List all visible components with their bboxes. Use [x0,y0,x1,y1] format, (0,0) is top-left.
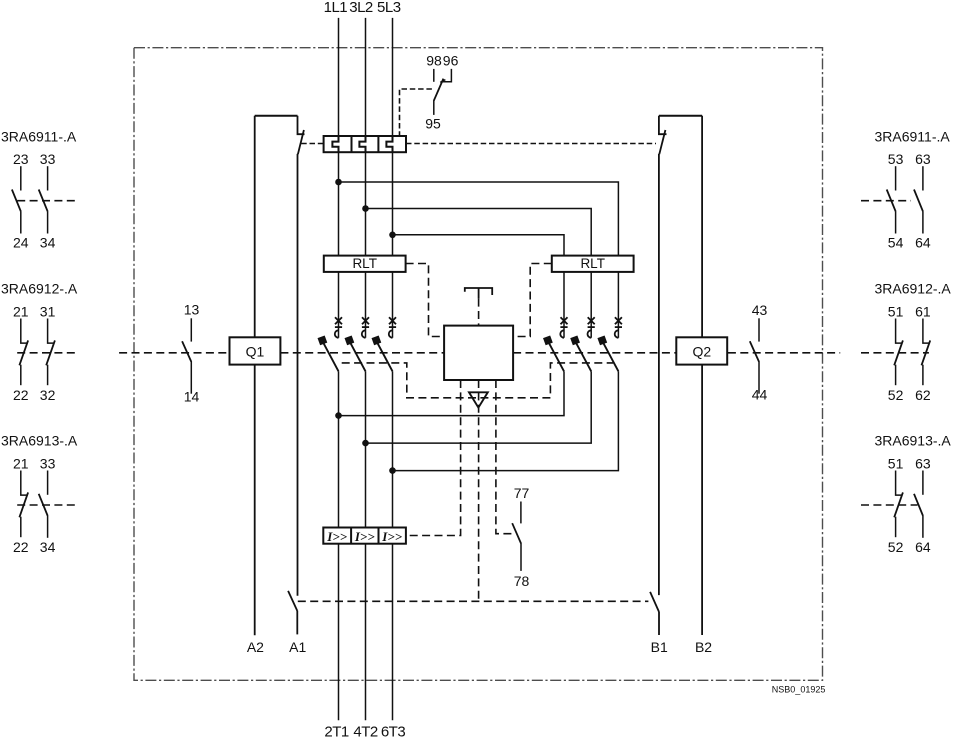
svg-text:2T1: 2T1 [324,723,349,740]
svg-text:23: 23 [13,151,29,167]
svg-text:64: 64 [915,235,931,251]
svg-text:NSB0_01925: NSB0_01925 [772,685,826,695]
svg-text:51: 51 [888,456,904,472]
svg-text:62: 62 [915,387,931,403]
svg-text:5L3: 5L3 [377,0,401,16]
svg-text:43: 43 [752,302,768,318]
svg-text:78: 78 [514,573,530,589]
svg-text:Q2: Q2 [692,344,711,360]
svg-text:B1: B1 [651,639,668,655]
svg-text:3RA6912-.A: 3RA6912-.A [875,281,952,297]
svg-text:13: 13 [184,301,200,317]
svg-text:1L1: 1L1 [324,0,348,16]
svg-text:63: 63 [915,456,931,472]
svg-text:I>>: I>> [354,529,375,544]
svg-text:33: 33 [40,151,56,167]
svg-text:A1: A1 [289,639,306,655]
svg-text:3RA6913-.A: 3RA6913-.A [1,433,78,449]
svg-text:3RA6911-.A: 3RA6911-.A [875,128,951,144]
svg-text:I>>: I>> [381,529,402,544]
svg-text:33: 33 [40,456,56,472]
svg-text:24: 24 [13,235,29,251]
svg-text:21: 21 [13,304,29,320]
svg-text:22: 22 [13,539,29,555]
svg-text:3RA6912-.A: 3RA6912-.A [1,281,78,297]
svg-text:96: 96 [443,53,459,69]
svg-text:31: 31 [40,304,56,320]
svg-text:64: 64 [915,539,931,555]
svg-text:6T3: 6T3 [381,723,406,740]
svg-text:95: 95 [425,115,441,131]
svg-text:98: 98 [426,53,442,69]
svg-text:A2: A2 [247,639,264,655]
svg-text:52: 52 [888,387,904,403]
svg-text:54: 54 [888,235,904,251]
svg-text:44: 44 [752,387,768,403]
svg-text:63: 63 [915,151,931,167]
svg-text:Q1: Q1 [246,344,265,360]
svg-text:3RA6911-.A: 3RA6911-.A [1,128,77,144]
svg-text:53: 53 [888,151,904,167]
svg-text:3L2: 3L2 [349,0,373,16]
svg-text:21: 21 [13,456,29,472]
svg-text:32: 32 [40,387,56,403]
svg-text:61: 61 [915,304,931,320]
svg-text:4T2: 4T2 [353,723,378,740]
svg-text:14: 14 [184,388,200,404]
svg-text:22: 22 [13,387,29,403]
svg-text:52: 52 [888,539,904,555]
svg-text:B2: B2 [695,639,712,655]
svg-text:34: 34 [40,235,56,251]
svg-text:3RA6913-.A: 3RA6913-.A [875,433,952,449]
svg-text:34: 34 [40,539,56,555]
svg-text:51: 51 [888,304,904,320]
svg-text:I>>: I>> [326,529,347,544]
svg-text:RLT: RLT [580,256,605,271]
svg-text:77: 77 [514,485,530,501]
svg-text:RLT: RLT [352,256,377,271]
